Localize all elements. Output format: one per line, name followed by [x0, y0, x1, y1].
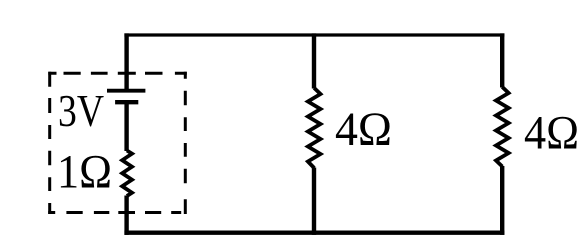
svg-text:4Ω: 4Ω: [524, 108, 579, 160]
svg-text:3V: 3V: [58, 86, 104, 136]
svg-text:4Ω: 4Ω: [335, 104, 392, 156]
svg-text:1Ω: 1Ω: [57, 147, 112, 199]
